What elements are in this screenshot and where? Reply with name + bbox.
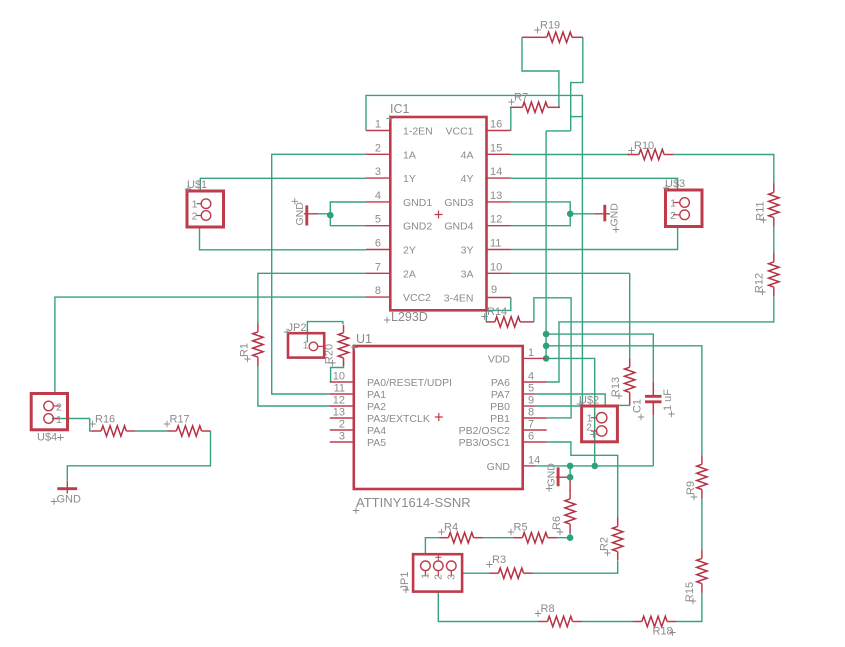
svg-text:U$1: U$1	[187, 179, 207, 191]
svg-text:U$2: U$2	[579, 395, 599, 407]
resistor R8	[538, 621, 547, 623]
svg-text:8: 8	[528, 407, 534, 419]
IC1 pin 4 GND1	[366, 201, 390, 203]
svg-text:4Y: 4Y	[461, 173, 474, 185]
svg-text:1: 1	[303, 340, 309, 352]
svg-text:GND1: GND1	[403, 197, 432, 209]
svg-text:R18: R18	[653, 626, 673, 638]
wire U1 PB3/OSC1 to R2 top	[547, 442, 618, 518]
wire net 2A: IC1 pin7 down to R1	[258, 273, 366, 323]
svg-text:VDD: VDD	[488, 353, 511, 365]
U1 pin 2 PA4	[330, 429, 354, 431]
label JP1	[403, 587, 409, 593]
svg-text:GND4: GND4	[444, 221, 473, 233]
svg-text:2: 2	[375, 142, 381, 154]
resistor R18	[633, 621, 642, 623]
svg-text:10: 10	[490, 261, 502, 273]
svg-text:10: 10	[333, 371, 345, 383]
IC1 pin 8 VCC2	[366, 296, 390, 298]
wire net 3A: IC1 pin10 to R10/R13 column	[511, 272, 630, 274]
svg-text:1Y: 1Y	[403, 173, 416, 185]
svg-text:2: 2	[192, 211, 198, 223]
wire net VCC2: IC1 pin8 to U$4 pin2	[55, 297, 366, 393]
U1 pin 9 PB0	[523, 405, 535, 407]
svg-text:3A: 3A	[461, 268, 474, 280]
wire R4 to R5	[483, 537, 514, 539]
svg-text:14: 14	[490, 166, 502, 178]
resistor R6 top lead	[569, 477, 571, 491]
wire net 4Y: IC1 pin14 to U$3 pin1	[511, 178, 678, 190]
svg-text:R19: R19	[540, 20, 560, 32]
svg-text:VCC1: VCC1	[445, 126, 473, 138]
svg-text:C1: C1	[632, 399, 644, 413]
resistor R12	[773, 253, 775, 262]
IC1 pin 16 VCC1	[487, 130, 511, 132]
IC1 pin 10 3A	[487, 272, 511, 274]
wire R20 bottom to U1 pin10	[330, 362, 344, 382]
svg-text:R12: R12	[754, 273, 766, 293]
IC1 pin 15 4A	[487, 153, 511, 155]
svg-text:R4: R4	[444, 522, 458, 534]
svg-text:R17: R17	[170, 414, 190, 426]
svg-text:R7: R7	[514, 92, 528, 104]
svg-text:1: 1	[420, 573, 432, 579]
svg-text:PA1: PA1	[367, 389, 386, 401]
svg-text:8: 8	[375, 285, 381, 297]
resistor R10	[630, 154, 639, 156]
wire JP2 pin1 to R20 top	[307, 322, 343, 343]
wire U$4 pin1 to R16	[52, 419, 93, 432]
svg-text:2Y: 2Y	[403, 245, 416, 257]
wire net 1-2EN: IC1 pin1 up, across y=95, down x=582 to U$2 corner	[366, 95, 582, 405]
svg-text:9: 9	[491, 284, 497, 296]
wire R16 to R17	[135, 430, 167, 432]
svg-text:1A: 1A	[403, 149, 416, 161]
wire net 3-4EN: IC1 pin9 jog to R14	[486, 298, 511, 322]
svg-text:R11: R11	[755, 201, 767, 220]
connector U$4	[31, 394, 67, 430]
ground GND (below U1 pin14)	[556, 476, 567, 478]
U1 pin 7 PB2/OSC2	[523, 429, 547, 431]
wire JP1 pin1 up to R4	[425, 538, 439, 555]
svg-text:7: 7	[375, 261, 381, 273]
wire R5 to junction	[557, 537, 571, 539]
svg-text:GND: GND	[546, 463, 558, 487]
IC1 pin 14 4Y	[487, 177, 511, 179]
svg-text:GND: GND	[294, 202, 306, 226]
svg-text:2: 2	[670, 210, 676, 222]
svg-text:6: 6	[528, 431, 534, 443]
label C1	[638, 414, 644, 420]
svg-text:4: 4	[375, 190, 381, 202]
IC1 pin 5 GND2	[366, 225, 390, 227]
U1 pin 4 PA6	[523, 381, 547, 383]
resistor R4	[439, 537, 448, 539]
junction GND row at x=594.8	[592, 463, 599, 470]
svg-text:GND: GND	[609, 203, 621, 227]
resistor R14	[486, 321, 495, 323]
resistor R20	[343, 325, 345, 333]
svg-text:PA7: PA7	[491, 389, 510, 401]
resistor R5	[513, 537, 522, 539]
resistor R3	[489, 572, 498, 574]
IC1 pin 9 3-4EN	[487, 297, 511, 299]
wire net 3Y: IC1 pin11 to U$3 pin2	[511, 227, 678, 250]
IC1 pin 13 GND3	[487, 201, 511, 203]
svg-text:PB2/OSC2: PB2/OSC2	[459, 425, 511, 437]
resistor R1	[257, 323, 259, 332]
svg-text:GND2: GND2	[403, 221, 432, 233]
IC1 pin 11 3Y	[487, 249, 511, 251]
label U$3	[663, 185, 669, 191]
IC1 pin 3 1Y	[366, 177, 390, 179]
svg-text:1-2EN: 1-2EN	[403, 126, 433, 138]
label U$2	[577, 401, 583, 407]
svg-text:1: 1	[192, 199, 198, 211]
svg-text:3-4EN: 3-4EN	[444, 293, 474, 305]
resistor R19	[538, 36, 547, 38]
svg-text:U1: U1	[356, 332, 372, 346]
label C1 value 1 uF	[668, 411, 674, 417]
svg-text:PB0: PB0	[490, 401, 510, 413]
wire R17 right down to bottom-left GND	[67, 431, 210, 482]
svg-text:R20: R20	[324, 344, 336, 364]
connector JP2	[288, 333, 324, 357]
U1 pin 11 PA1	[330, 393, 354, 395]
wire VDD row to C1 top	[546, 334, 653, 382]
U1 pin 14 GND	[523, 465, 535, 467]
svg-text:1 uF: 1 uF	[662, 389, 674, 411]
IC IC1 L293D body	[390, 117, 486, 310]
wire JP1 pin2 down to R8	[438, 592, 538, 622]
connector U$1	[187, 191, 224, 227]
label U$1	[185, 186, 191, 192]
wire R15 bottom to R18 right	[676, 593, 702, 622]
svg-text:9: 9	[528, 395, 534, 407]
junction left GND node	[327, 212, 334, 219]
wire R19 left link to R7 right	[522, 37, 559, 107]
svg-text:PB3/OSC1: PB3/OSC1	[459, 437, 511, 449]
wire GND3/GND4 to right GND	[511, 202, 571, 226]
label IC1	[386, 115, 392, 121]
label U1	[351, 344, 357, 350]
svg-text:U$4: U$4	[37, 432, 57, 444]
mcu U1 ATTINY1614-SSNR body	[354, 346, 523, 489]
svg-text:5: 5	[528, 383, 534, 395]
U1 pin 6 PB3/OSC1	[523, 441, 547, 443]
ground GND (right of IC1, near U$3)	[594, 213, 610, 215]
wire R2 bottom to R3 right	[533, 561, 618, 573]
svg-text:12: 12	[490, 214, 502, 226]
wire GND junction drop to GND symbol and R6	[569, 466, 571, 477]
wire net 1Y: IC1 pin3 to U$1 pin1	[200, 178, 366, 191]
svg-text:6: 6	[375, 238, 381, 250]
IC1 pin 1 1-2EN	[366, 130, 390, 132]
svg-text:2: 2	[586, 422, 592, 434]
U1 pin 10 PA0/RESET/UDPI	[330, 381, 354, 383]
svg-text:R2: R2	[599, 537, 611, 551]
svg-text:PA0/RESET/UDPI: PA0/RESET/UDPI	[367, 377, 452, 389]
wire R6 bottom to R4/R5 junction	[569, 533, 571, 538]
IC1 pin 12 GND4	[487, 225, 511, 227]
junction R5/R6 node	[567, 534, 574, 541]
connector U$3	[666, 190, 703, 227]
resistor R6	[569, 490, 571, 499]
svg-text:R16: R16	[95, 414, 115, 426]
svg-text:15: 15	[490, 142, 502, 154]
connector U$2	[582, 406, 618, 442]
svg-text:R15: R15	[684, 582, 696, 602]
resistor R13	[629, 358, 631, 367]
ground GND (bottom left, R17 net)	[66, 482, 68, 494]
svg-text:R6: R6	[551, 516, 563, 530]
wire U1 PA7 to U$2 top	[535, 394, 605, 406]
wire U1 GND row to C1 bottom	[535, 465, 653, 467]
svg-text:3Y: 3Y	[461, 245, 474, 257]
svg-text:JP2: JP2	[288, 322, 307, 334]
wire IC1 pin16 row to R7 left	[510, 107, 512, 131]
svg-text:PA3/EXTCLK: PA3/EXTCLK	[367, 413, 430, 425]
svg-text:ATTINY1614-SSNR: ATTINY1614-SSNR	[356, 495, 471, 510]
svg-text:4A: 4A	[461, 149, 474, 161]
resistor R16	[92, 430, 101, 432]
svg-text:R1: R1	[239, 343, 251, 357]
junction right GND node	[567, 211, 574, 218]
U1 pin 13 PA3/EXTCLK	[330, 417, 354, 419]
svg-text:GND: GND	[57, 494, 82, 506]
IC1 pin 6 2Y	[366, 249, 390, 251]
U1 pin 5 PA7	[523, 393, 535, 395]
svg-text:R9: R9	[685, 481, 697, 495]
svg-text:11: 11	[490, 238, 501, 250]
U1 pin 1 VDD	[523, 357, 546, 359]
label JP2	[284, 329, 290, 335]
svg-text:1: 1	[528, 347, 534, 359]
svg-text:2: 2	[433, 574, 445, 580]
svg-text:2: 2	[56, 402, 62, 414]
svg-text:3: 3	[339, 431, 345, 443]
svg-text:3: 3	[375, 166, 381, 178]
svg-text:11: 11	[334, 383, 345, 395]
IC1 pin 7 2A	[366, 272, 390, 274]
wire R19 right link down jog	[571, 37, 583, 131]
resistor R15	[701, 549, 703, 558]
junction GND row at x=570	[567, 463, 574, 470]
wire R13 bottom to U$2	[617, 404, 629, 406]
wire VDD trunk x=546	[545, 131, 547, 359]
wire net 1A: IC1 pin2 to U1 PA1 via x=271.7	[272, 154, 366, 394]
svg-text:PB1: PB1	[490, 413, 510, 425]
svg-text:L293D: L293D	[391, 310, 428, 324]
svg-text:1: 1	[56, 414, 62, 426]
svg-text:2A: 2A	[403, 268, 416, 280]
U1 pin 12 PA2	[330, 405, 354, 407]
ground GND (left of IC1)	[304, 213, 318, 215]
svg-text:5: 5	[375, 214, 381, 226]
wire R14 right to U1 PB1	[534, 298, 571, 418]
svg-text:PA4: PA4	[367, 425, 386, 437]
wire net 4A: IC1 pin15 to R10	[511, 154, 630, 156]
svg-text:PA2: PA2	[367, 401, 386, 413]
svg-text:R10: R10	[634, 140, 654, 152]
svg-text:12: 12	[333, 395, 345, 407]
wire VDD row to R9 top	[546, 346, 702, 456]
wire R10 right to R11 top	[673, 155, 774, 184]
wire VDD row to U$2 pin1	[546, 358, 595, 466]
svg-text:R3: R3	[492, 554, 506, 566]
svg-text:13: 13	[333, 407, 345, 419]
svg-text:PA5: PA5	[367, 437, 386, 449]
label U$4	[57, 434, 63, 440]
wire JP1 pin3 to R3	[462, 572, 489, 574]
U1 pin 8 PB1	[523, 417, 547, 419]
svg-text:PA6: PA6	[491, 377, 510, 389]
resistor R17	[167, 430, 176, 432]
junction VDD row C1	[543, 331, 550, 338]
resistor R11	[773, 183, 775, 192]
wire R1 bottom to U1 PA2	[258, 366, 330, 406]
junction GND symbol node	[567, 474, 574, 481]
svg-text:16: 16	[490, 119, 502, 131]
svg-text:1: 1	[375, 119, 381, 131]
wire C1 bottom to GND row	[652, 415, 654, 466]
wire GND1/GND2 to left GND	[330, 202, 366, 226]
wire U1 PB0 to U$2 left	[535, 405, 582, 407]
svg-text:GND: GND	[487, 461, 511, 473]
svg-text:14: 14	[528, 454, 540, 466]
wire jog y=116.6	[571, 116, 583, 118]
resistor R7	[510, 106, 523, 108]
svg-text:4: 4	[528, 371, 534, 383]
capacitor C1	[652, 382, 654, 395]
U1 pin 3 PA5	[330, 441, 354, 443]
svg-text:3: 3	[446, 574, 458, 580]
connector JP1	[413, 554, 462, 591]
resistor R9	[701, 455, 703, 464]
wire net 2Y: U$1 pin2 to IC1 pin6	[200, 227, 367, 250]
svg-text:IC1: IC1	[390, 102, 410, 116]
svg-text:JP1: JP1	[399, 572, 411, 591]
svg-text:7: 7	[528, 419, 534, 431]
svg-text:GND3: GND3	[444, 197, 473, 209]
svg-text:R14: R14	[487, 306, 507, 318]
svg-text:VCC2: VCC2	[403, 292, 431, 304]
svg-text:1: 1	[670, 198, 676, 210]
svg-text:U$3: U$3	[665, 178, 685, 190]
svg-text:R8: R8	[541, 603, 555, 615]
junction VDD row R9	[543, 343, 550, 350]
wire R11 bottom to R12 top	[773, 227, 775, 254]
wire R8 to R18	[582, 621, 634, 623]
svg-text:13: 13	[490, 190, 502, 202]
label L293D	[384, 317, 390, 323]
label ATTINY1614-SSNR	[353, 507, 359, 513]
wire R9 bottom to R15 top	[701, 498, 703, 549]
wire R12 bottom to U1 PA6	[547, 296, 774, 382]
resistor R2	[617, 517, 619, 526]
svg-text:R5: R5	[514, 522, 528, 534]
svg-text:R13: R13	[610, 377, 622, 397]
junction VDD pin node	[543, 355, 550, 362]
IC1 pin 2 1A	[366, 153, 390, 155]
svg-text:2: 2	[339, 419, 345, 431]
